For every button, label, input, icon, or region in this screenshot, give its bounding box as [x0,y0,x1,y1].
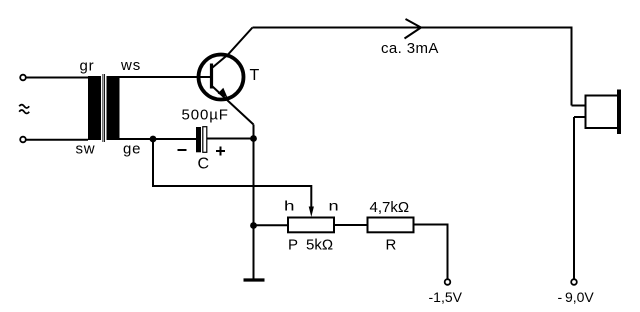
speaker magnet bar [617,90,621,135]
svg-text:n: n [329,198,339,214]
transistor T circle [199,55,244,100]
transistor T base bar [210,64,213,89]
capacitor C left plate [196,127,201,152]
node B junction dot [250,135,257,142]
wiper arrowhead [309,207,314,218]
svg-text:gr: gr [80,58,95,75]
wire ws to base [120,76,211,78]
wire ge to node A [120,138,197,140]
svg-text:4,7kΩ: 4,7kΩ [370,199,410,216]
svg-text:P: P [288,237,298,254]
node A junction dot [150,136,157,143]
potentiometer P body [288,218,334,233]
wire collector top rail [253,28,572,106]
wire emitter down [253,125,255,226]
transistor T emitter line [213,87,254,125]
node C junction dot [250,222,257,229]
speaker upper stub [572,105,586,107]
ground bar [244,278,265,281]
capacitor C right plate [203,127,207,153]
svg-text:500µF: 500µF [182,107,229,124]
transistor T emitter arrow [218,88,228,98]
transistor T collector line [213,28,253,68]
svg-text:C: C [198,156,210,173]
svg-text:- 9,0V: - 9,0V [558,289,595,305]
transformer core [103,74,105,142]
speaker lower stub [574,116,586,118]
capacitor minus sign [178,149,187,151]
svg-text:h: h [284,198,295,214]
wire speaker to -9V [573,117,575,279]
input terminal top-left [20,75,26,81]
speaker body [586,96,619,129]
current arrow ca.3mA [405,19,422,39]
wire resistor to -1,5V [414,225,448,279]
svg-text:ge: ge [123,141,141,158]
wire node A down to bias rail [153,139,311,208]
svg-text:ca. 3mA: ca. 3mA [381,40,439,57]
svg-text:-1,5V: -1,5V [429,289,463,305]
resistor R body [368,218,414,233]
terminal -1,5V [445,279,451,285]
transformer Tr secondary winding [107,76,120,140]
terminal -9,0V [571,279,577,285]
wire input bottom [26,139,88,141]
svg-text:sw: sw [76,141,96,158]
transformer Tr primary winding [88,76,101,140]
svg-text:R: R [386,237,397,254]
svg-text:ws: ws [120,57,141,74]
svg-text:5kΩ: 5kΩ [306,237,333,254]
wire cap to node B [207,138,252,140]
capacitor plus sign [216,147,225,156]
wire node C to pot [254,224,289,226]
ground wire [253,226,255,279]
svg-text:T: T [250,67,260,84]
wire pot to resistor [334,224,368,226]
AC approx symbol [19,105,29,114]
input terminal bottom-left [20,137,26,143]
wire input top [26,77,88,79]
